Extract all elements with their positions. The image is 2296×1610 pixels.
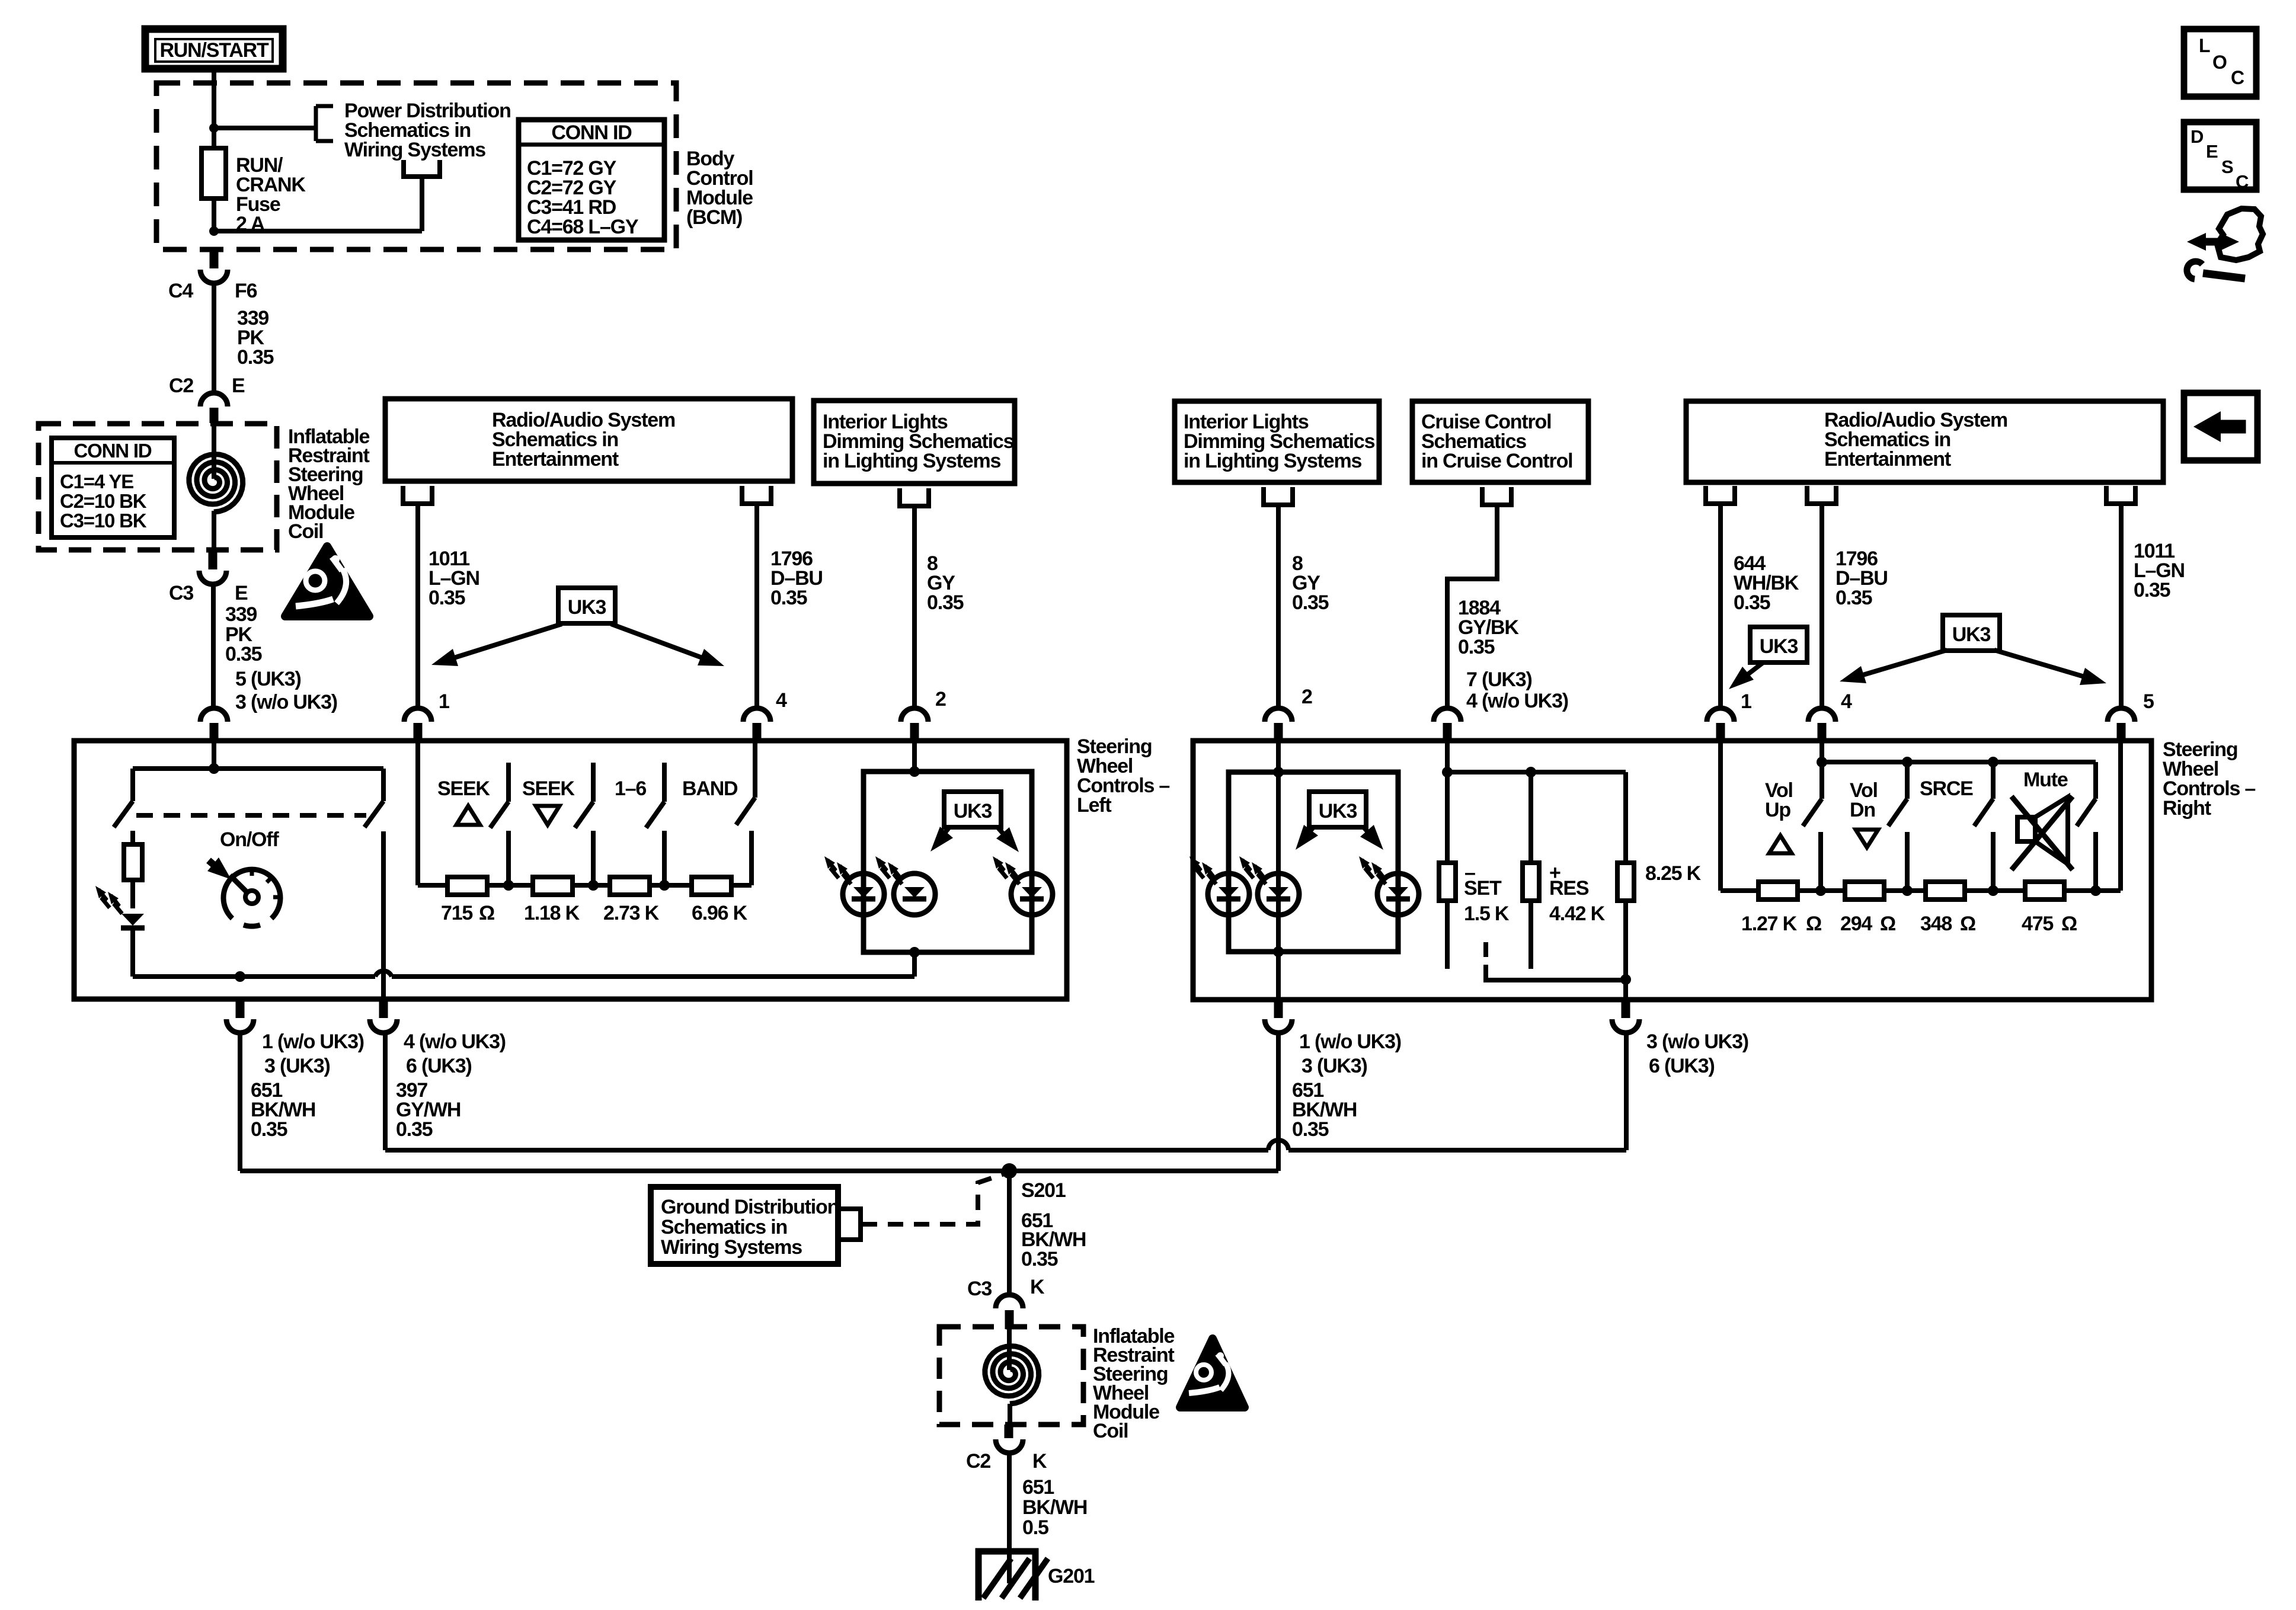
svg-text:4: 4 [776,689,787,712]
bracket + wire 1011 L-GN 0.35 [403,486,479,708]
svg-text:C: C [2236,171,2249,192]
connector pin 2 into right control box [1265,686,1312,741]
seek bus seg4 [731,831,752,885]
cruise switch contact [1483,942,1488,957]
svg-text:On/Off: On/Off [220,828,279,851]
svg-text:0.35: 0.35 [1292,1118,1329,1141]
svg-text:Right: Right [2163,797,2211,820]
svg-text:BAND: BAND [682,777,738,800]
resistor 1.18 K [524,877,580,924]
ref box Interior Lights Dimming Schematics (right) [1175,401,1379,482]
svg-text:339: 339 [225,603,257,626]
resistor 8.25 K [1617,862,1702,980]
connector pin 4 into left control box [743,689,787,741]
LED lamp 6 [1359,856,1419,915]
switch SRCE [1920,762,1993,891]
table CONN ID (BCM) [519,120,664,240]
connector pin 1/3 below left box [226,999,364,1141]
module box Inflatable Restraint Steering Wheel Module Coil (dashed) [39,424,277,550]
switch On/Off left pole [114,769,133,844]
light arrows (On/Off LED) [95,886,122,914]
svg-text:RUN/START: RUN/START [159,39,269,62]
svg-text:7 (UK3): 7 (UK3) [1466,668,1532,691]
svg-text:Entertainment: Entertainment [1824,448,1951,470]
junction r2 [1902,885,1913,896]
svg-text:3 (UK3): 3 (UK3) [1302,1055,1367,1077]
mute speaker icon [2012,796,2073,870]
vol bus seg3 [1965,888,2025,893]
junction 1-6 [659,880,670,891]
svg-text:0.35: 0.35 [225,643,262,665]
svg-text:2: 2 [1302,686,1312,708]
callout UK3 (LED right) [1296,792,1383,850]
seek bus seg1 [487,883,533,888]
junction RES branch [1526,767,1536,777]
dashed leader to S201 [862,1174,1004,1224]
connector pin 3/6 below right box [1612,1000,1748,1077]
LED feed wire (pin 2 right) [1276,741,1281,1000]
ref box Radio/Audio System Schematics in Entertainment (right) [1686,401,2163,482]
svg-text:3 (w/o UK3): 3 (w/o UK3) [235,691,337,713]
module box coil lower (dashed) [939,1327,1083,1425]
wire 397 GY/WH run [385,1033,1626,1150]
wire 651 BK/WH 0.5 [1009,1453,1087,1583]
svg-text:E: E [235,582,248,604]
LED group frame (right box) [1229,772,1398,952]
svg-text:C2: C2 [169,375,193,397]
connector pin 5/3 into left control box [200,708,228,741]
svg-text:Ω: Ω [479,902,494,924]
svg-text:0.5: 0.5 [1022,1516,1048,1539]
svg-text:SEEK: SEEK [522,777,575,800]
LED lamp 2 [875,856,935,915]
resistor 6.96 K [692,877,748,924]
svg-text:1 (w/o UK3): 1 (w/o UK3) [1299,1030,1401,1053]
svg-text:UK3: UK3 [1319,800,1357,822]
resistor RES 4.42 K [1523,772,1606,969]
dimmer gauge icon [207,857,282,926]
svg-text:4: 4 [1841,690,1852,713]
svg-text:4 (w/o UK3): 4 (w/o UK3) [1466,690,1568,712]
svg-text:Wiring Systems: Wiring Systems [661,1236,802,1259]
connector pin 5 into right control box [2108,690,2154,741]
module box Steering Wheel Controls - Right [1193,738,2255,1000]
svg-text:CONN ID: CONN ID [551,121,632,144]
svg-text:UK3: UK3 [1952,623,1991,646]
On/Off top bus [133,766,383,771]
wire S201 to C3 [1007,1171,1012,1295]
module box Steering Wheel Controls - Left [74,735,1169,999]
On/Off bottom wire [133,974,375,979]
junction srce [1988,757,1998,767]
mechanical link (dashed) [136,813,366,818]
icon box DESC [2184,122,2256,192]
svg-text:Coil: Coil [1093,1420,1128,1442]
svg-text:C4=68 L–GY: C4=68 L–GY [527,216,639,238]
resistor 1.27 K [1741,882,1821,935]
svg-text:C3: C3 [967,1278,992,1300]
wire 651 bus [240,1033,1278,1171]
vol bus seg2 [1884,888,1926,893]
wire from RUN/START into BCM [212,72,216,128]
svg-text:0.35: 0.35 [2134,579,2170,601]
svg-text:715: 715 [441,902,472,924]
junction SET branch [1442,767,1453,777]
svg-text:C1=4 YE: C1=4 YE [60,470,133,492]
svg-text:Entertainment: Entertainment [492,448,619,470]
callout UK3 (LED left) [930,792,1019,852]
junction seek down [588,880,599,891]
text Inflatable Restraint Steering Wheel Module Coil (upper) [288,425,370,543]
vol top bus [1822,741,2096,799]
junction On/Off top [209,763,219,774]
wire pin5/3 to On/Off top bus [212,741,216,769]
svg-text:0.35: 0.35 [251,1118,287,1141]
fuse RUN/CRANK Fuse 2 A [202,128,306,235]
callout UK3 (644 wire) [1729,627,1807,689]
svg-text:Mute: Mute [2023,769,2068,791]
svg-text:Ω: Ω [2061,913,2077,935]
labels S201 651 BK/WH 0.35 [1021,1179,1086,1270]
bracket to Power Distribution schematic [316,106,333,141]
switch BAND (pin 4 wire) [682,741,755,825]
svg-text:Dn: Dn [1850,799,1875,821]
svg-text:651: 651 [1022,1476,1054,1499]
svg-text:348: 348 [1920,913,1952,935]
connector pin 1/3 below right box [1265,1000,1401,1141]
junction LED top [909,766,920,777]
svg-text:6.96 K: 6.96 K [692,902,748,924]
LED feed wire (pin 2) [912,741,917,772]
junction bottom bus [235,971,245,982]
switch On/Off right pole [364,769,383,827]
svg-text:C2=10 BK: C2=10 BK [60,490,147,512]
ref box Ground Distribution Schematics in Wiring Systems [651,1187,839,1264]
switch 1-6 [615,763,664,885]
svg-text:C4: C4 [168,280,193,302]
icon box back arrow [2184,393,2257,460]
junction at fuse top [209,123,219,133]
svg-text:5: 5 [2143,690,2154,713]
bracket + wire 1011 L-GN 0.35 (right) [2106,486,2185,708]
svg-text:UK3: UK3 [568,596,606,619]
svg-text:0.35: 0.35 [1458,636,1495,658]
resistor 2.73 K [603,877,660,924]
svg-text:0.35: 0.35 [770,587,807,609]
left rail from pin 1 [418,741,449,885]
svg-text:in Lighting Systems: in Lighting Systems [823,450,1001,472]
svg-text:RES: RES [1549,877,1589,900]
svg-text:K: K [1030,1276,1045,1298]
bracket at ground box [838,1209,861,1240]
bottom bus to LED group [392,952,914,977]
svg-text:D: D [2191,126,2204,147]
svg-text:S: S [2221,156,2233,177]
callout UK3 (1796/1011 wires) [1840,615,2106,685]
junction seek up [503,880,514,891]
LED lamp 4 [1189,856,1249,915]
text Body Control Module (BCM) [686,148,753,229]
power feed label RUN/START [145,29,283,69]
svg-text:2.73 K: 2.73 K [603,902,660,924]
LED lamp 5 [1239,856,1299,915]
svg-text:S201: S201 [1021,1179,1066,1202]
bracket + wire 644 WH/BK 0.35 [1706,486,1799,708]
wire 339 PK 0.35 (lower) with pin notes [213,584,337,713]
svg-text:0.35: 0.35 [927,591,964,614]
wire hop (397 crossing) [375,971,392,977]
pin 5 rail [2118,741,2123,891]
connector C3 / K (coil lower module) [967,1276,1045,1329]
bracket + wire 8 GY 0.35 (right) [1264,487,1329,708]
svg-text:Up: Up [1765,799,1790,821]
connector pin 4/6 below left box [370,831,506,1141]
svg-text:0.35: 0.35 [1835,587,1872,609]
switch Vol Dn [1850,762,1907,891]
connector pin 4 into right control box [1808,690,1852,741]
LED diode (On/Off) [121,880,145,977]
svg-text:3 (w/o UK3): 3 (w/o UK3) [1646,1030,1748,1053]
svg-text:2: 2 [935,688,946,710]
seek bus seg2 [573,883,610,888]
svg-text:1.18 K: 1.18 K [524,902,580,924]
svg-text:Ω: Ω [1960,913,1975,935]
wire 644 to resistor bus [1721,741,1758,891]
coil clockspring (upper) [189,423,243,551]
wire 651 BK/WH to bus [238,1033,242,1171]
svg-text:UK3: UK3 [954,800,992,822]
vol bus seg1 [1798,888,1845,893]
svg-text:E: E [232,375,245,397]
cruise top bus [1447,741,1626,863]
svg-text:O: O [2212,52,2227,73]
wire 339 PK 0.35 (upper) [214,283,274,393]
svg-text:UK3: UK3 [1760,635,1798,658]
svg-text:C2: C2 [966,1450,990,1473]
svg-text:C3=10 BK: C3=10 BK [60,510,147,532]
ref box Cruise Control Schematics in Cruise Control [1412,401,1588,482]
label On/Off [220,828,279,851]
connector C4 / F6 [168,249,257,302]
junction at fuse bottom [209,226,219,236]
junction r1 [1815,885,1826,896]
ref box Interior Lights Dimming Schematics (left) [814,401,1015,484]
svg-text:4 (w/o UK3): 4 (w/o UK3) [404,1030,506,1053]
svg-text:G201: G201 [1048,1565,1095,1587]
resistor 715 ohm [441,877,494,924]
svg-text:Ω: Ω [1806,913,1821,935]
junction vol up [1817,757,1827,767]
seek bus seg3 [650,883,692,888]
junction cruise common [1620,974,1631,985]
bracket + wire 1884 GY/BK 0.35 with jog [1447,487,1568,712]
svg-text:4.42 K: 4.42 K [1549,902,1606,925]
junction r3 [1988,885,1998,896]
svg-text:475: 475 [2022,913,2053,935]
cruise common wire [1486,965,1626,980]
text Inflatable Restraint Steering Wheel Module Coil (lower) [1093,1325,1175,1442]
junction LED bottom [909,947,920,958]
svg-text:0.35: 0.35 [428,587,465,609]
connector pin 1 into left control box [404,690,449,741]
svg-text:SRCE: SRCE [1920,777,1973,800]
svg-text:6 (UK3): 6 (UK3) [406,1055,472,1077]
connector pin 1 into right control box [1707,690,1751,741]
svg-text:1.5 K: 1.5 K [1464,902,1510,925]
resistor 475 [2022,882,2077,935]
switch Mute [2023,769,2096,891]
bracket + wire 1796 D-BU 0.35 (left) [742,486,823,708]
svg-text:3 (UK3): 3 (UK3) [264,1055,330,1077]
svg-text:SET: SET [1464,877,1502,900]
connector C3 / E (coil lower) [169,551,248,604]
svg-text:1.27 K: 1.27 K [1741,913,1798,935]
splice S201 [1002,1163,1017,1179]
svg-text:K: K [1032,1450,1047,1473]
resistor (On/Off illumination) [124,844,142,880]
svg-text:0.35: 0.35 [1292,591,1329,614]
svg-text:0.35: 0.35 [237,346,274,369]
switch SEEK up [437,763,509,885]
callout UK3 (seek wires) [431,588,724,666]
bracket + wire 1796 D-BU 0.35 (right) [1807,486,1888,708]
coil clockspring (lower) [985,1329,1039,1425]
svg-text:294: 294 [1840,913,1872,935]
svg-text:F6: F6 [235,280,257,302]
LED lamp 1 [824,856,884,915]
svg-text:5 (UK3): 5 (UK3) [235,668,301,690]
vol bus seg4 [2064,888,2121,893]
connector pin 7/4 into right control box [1434,708,1461,741]
warning triangle SIR (upper) [285,546,369,616]
svg-text:L: L [2199,35,2210,56]
bracket under Power Distribution note [404,160,440,177]
svg-text:Ω: Ω [1880,913,1895,935]
svg-text:SEEK: SEEK [437,777,490,800]
svg-text:1: 1 [439,690,449,713]
icon directional arrows with wrench [2187,209,2263,279]
svg-text:Schematics in: Schematics in [661,1216,787,1238]
icon box LOC [2184,29,2256,97]
svg-text:Coil: Coil [288,520,323,543]
svg-text:1 (w/o UK3): 1 (w/o UK3) [262,1030,364,1053]
resistor 294 [1840,882,1895,935]
svg-text:6 (UK3): 6 (UK3) [1649,1055,1715,1077]
warning triangle SIR (lower) [1180,1339,1245,1407]
wire from fuse to C4 bracket [214,177,422,231]
svg-text:C: C [2231,67,2244,88]
ground G201 [978,1551,1095,1601]
resistor SET 1.5 K [1439,772,1510,969]
connector C2 / E (coil upper) [169,375,245,423]
module box Body Control Module (dashed) [156,83,676,249]
resistor 348 [1920,882,1975,935]
switch SEEK down [522,763,593,885]
svg-text:8.25 K: 8.25 K [1645,862,1702,885]
svg-text:Wiring Systems: Wiring Systems [344,139,485,161]
ref box Radio/Audio System Schematics in Entertainment (left) [385,399,792,481]
svg-text:in Cruise Control: in Cruise Control [1421,450,1572,472]
svg-text:0.35: 0.35 [396,1118,433,1141]
LED lamp 3 [993,856,1053,915]
connector pin 2 into left control box [901,688,946,741]
svg-text:C3: C3 [169,582,193,604]
connector C2 / K (coil lower exit) [966,1425,1047,1473]
svg-text:Left: Left [1077,794,1111,817]
junction vol dn [1902,757,1913,767]
junction r4 [2090,885,2101,896]
LED group frame (left box) [864,772,1032,952]
wire to power distribution bracket [214,126,316,130]
junction LED bottom right [1273,946,1284,957]
svg-text:E: E [2206,141,2218,162]
wire to pin 3/6 [1623,980,1628,1000]
svg-text:1–6: 1–6 [615,777,646,800]
svg-text:1: 1 [1741,690,1751,713]
table CONN ID (coil) [52,438,174,537]
svg-text:in Lighting Systems: in Lighting Systems [1184,450,1362,472]
svg-text:CONN ID: CONN ID [74,440,152,462]
svg-text:0.35: 0.35 [1021,1248,1058,1270]
svg-text:Ground Distribution: Ground Distribution [661,1196,839,1218]
svg-text:(BCM): (BCM) [686,206,742,229]
switch Vol Up [1765,762,1822,891]
junction LED top right [1273,767,1284,777]
svg-text:0.35: 0.35 [1734,591,1770,614]
bracket + wire 8 GY 0.35 (left) [900,488,964,708]
svg-text:BK/WH: BK/WH [1022,1496,1087,1519]
note Power Distribution Schematics in Wiring Systems [344,100,511,161]
